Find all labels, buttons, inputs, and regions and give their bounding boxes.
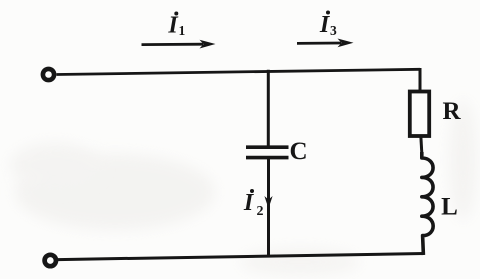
wire right branch upper (corner to resistor) <box>419 68 422 92</box>
svg-text:1: 1 <box>179 23 186 38</box>
terminal top-left <box>43 69 54 80</box>
inductor L coil <box>422 152 433 255</box>
svg-text:C: C <box>289 138 307 165</box>
wire middle branch lower <box>267 158 270 257</box>
wire bottom rail <box>58 254 424 260</box>
svg-text:R: R <box>442 98 461 125</box>
current I1 arrow <box>142 40 216 49</box>
label I3 <box>319 11 337 39</box>
wire top rail <box>57 69 421 74</box>
label I2 <box>243 189 264 219</box>
svg-text:3: 3 <box>330 23 337 38</box>
capacitor C plates <box>246 147 289 157</box>
svg-text:L: L <box>441 194 458 221</box>
node tee-top (junction of middle branch and top rail) <box>267 70 270 147</box>
wire resistor to inductor <box>421 136 422 154</box>
current I3 arrow <box>297 39 354 48</box>
resistor R body <box>410 92 429 137</box>
svg-text:I: I <box>243 190 255 216</box>
current I2 arrowhead (downward) <box>264 196 272 209</box>
terminal bottom-left <box>45 255 56 266</box>
label I1 <box>167 12 185 39</box>
svg-text:2: 2 <box>257 204 264 219</box>
